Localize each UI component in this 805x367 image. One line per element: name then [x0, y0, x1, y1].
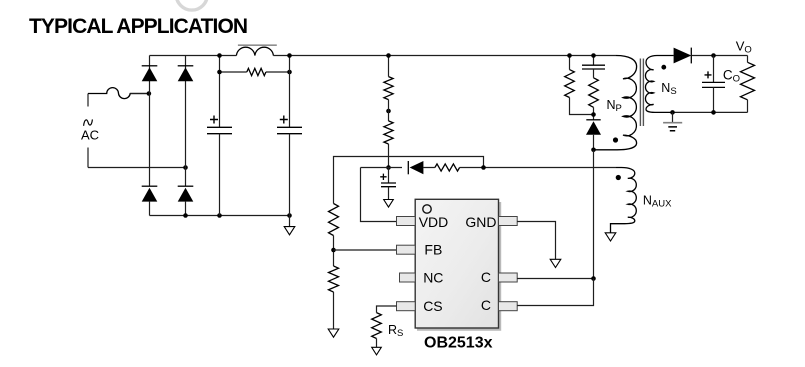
- resistor R5 (FB lower): [329, 266, 339, 329]
- pin C upper stub: [499, 273, 518, 282]
- node AC/D2 junction: [183, 165, 188, 170]
- resistor R7 (clamp): [565, 56, 594, 115]
- svg-text:FB: FB: [424, 242, 442, 258]
- resistor R9 (load): [741, 56, 755, 113]
- capacitor Co: [702, 56, 725, 113]
- node drain/C junction: [591, 276, 596, 281]
- resistor R6 (VDD series): [435, 164, 460, 171]
- node fuse/D1 junction: [147, 91, 152, 96]
- diode D1: [142, 66, 158, 81]
- resistor R4 (FB upper): [329, 204, 339, 236]
- node C2/top-bus: [287, 53, 292, 58]
- pin NC stub: [400, 273, 416, 282]
- node R2/top-bus: [386, 53, 391, 58]
- wire CS pin: [377, 306, 397, 313]
- node startup mid: [386, 109, 391, 114]
- resistor R2 (startup upper): [384, 56, 393, 100]
- svg-text:CO: CO: [723, 67, 740, 84]
- svg-text:RS: RS: [388, 323, 403, 339]
- diode D6 (clamp): [586, 120, 601, 150]
- pin FB stub: [397, 245, 416, 254]
- ground earth (secondary): [663, 112, 682, 130]
- node C1/top-bus: [217, 53, 222, 58]
- wire FB divider top: [334, 157, 484, 204]
- wire D1 column: [149, 56, 151, 187]
- svg-text:VO: VO: [736, 39, 752, 56]
- svg-text:NS: NS: [661, 81, 676, 97]
- svg-text:NC: NC: [423, 270, 443, 286]
- diode D3: [142, 186, 158, 215]
- pin GND stub: [499, 217, 518, 226]
- node aux/FB junction: [481, 165, 486, 170]
- ground Naux: [605, 233, 616, 241]
- wire VDD branch: [361, 168, 397, 222]
- node VDD rail junction: [386, 165, 391, 170]
- svg-text:AC: AC: [81, 128, 99, 143]
- wire C upper pin: [517, 278, 593, 280]
- pin C lower stub: [499, 302, 518, 311]
- capacitor C3 (VDD): [380, 168, 396, 200]
- svg-text:GND: GND: [465, 214, 496, 230]
- transformer primary Np: [594, 56, 637, 150]
- node C4/top-bus: [591, 53, 596, 58]
- svg-text:OB2513x: OB2513x: [424, 334, 493, 351]
- node Naux phase dot: [616, 175, 621, 180]
- node output: [711, 53, 716, 58]
- pin 1 marker: [423, 205, 431, 213]
- node R1 right: [287, 70, 292, 75]
- wire drain: [593, 150, 595, 278]
- wire GND pin: [517, 222, 555, 260]
- ground GND pin: [550, 259, 561, 267]
- resistor R8 (clamp series): [589, 69, 599, 120]
- resistor R3 (startup lower): [384, 100, 393, 168]
- svg-text:VDD: VDD: [419, 214, 449, 230]
- node Np phase dot: [613, 137, 618, 142]
- wire fuse to bridge: [130, 93, 149, 95]
- diode D7 (output): [674, 48, 748, 64]
- wire secondary return: [673, 111, 748, 113]
- node Ns phase dot: [661, 65, 666, 70]
- node bottom bus junctions: [183, 213, 188, 218]
- capacitor C2: [277, 56, 302, 216]
- ground Rs: [372, 347, 382, 355]
- diode D5: [408, 161, 423, 174]
- wire C lower pin: [517, 279, 593, 306]
- ground bridge return: [284, 216, 295, 235]
- transformer secondary Ns: [645, 56, 673, 113]
- node R1 left: [217, 70, 222, 75]
- node Ns return: [670, 110, 675, 115]
- op IC shadow: [417, 202, 500, 330]
- fuse F1: [88, 88, 147, 99]
- svg-text:NP: NP: [607, 98, 622, 114]
- transformer auxiliary Naux: [611, 168, 637, 233]
- node FB: [333, 236, 335, 267]
- resistor R1 (L1 damping): [220, 68, 290, 75]
- ground FB divider: [328, 329, 339, 337]
- capacitor C4 (clamp): [582, 56, 605, 70]
- svg-text:C: C: [481, 269, 491, 285]
- wire D2 column: [185, 56, 187, 187]
- wire aux row: [361, 167, 617, 169]
- node Np bottom / drain: [591, 148, 596, 153]
- diode D4: [178, 186, 194, 215]
- svg-text:TYPICAL APPLICATION: TYPICAL APPLICATION: [29, 15, 247, 38]
- watermark arc: [176, 0, 207, 10]
- inductor L1: [236, 45, 276, 55]
- pin VDD stub: [397, 217, 416, 226]
- node clamp bottom: [591, 112, 596, 117]
- wire FB to pin: [334, 249, 397, 251]
- wire top bus: [150, 55, 617, 57]
- ground VDD cap: [384, 200, 394, 208]
- AC source: [81, 94, 99, 168]
- node R7/top-bus: [567, 53, 572, 58]
- pin CS stub: [397, 302, 416, 311]
- capacitor C1: [207, 56, 232, 216]
- svg-text:CS: CS: [423, 298, 442, 314]
- diode D2: [178, 66, 194, 81]
- transformer core: [640, 59, 643, 127]
- wire AC neutral to bridge: [88, 167, 185, 169]
- svg-text:C: C: [481, 297, 491, 313]
- resistor Rs: [372, 313, 382, 348]
- wire bottom bus: [150, 215, 290, 217]
- svg-text:NAUX: NAUX: [643, 193, 672, 209]
